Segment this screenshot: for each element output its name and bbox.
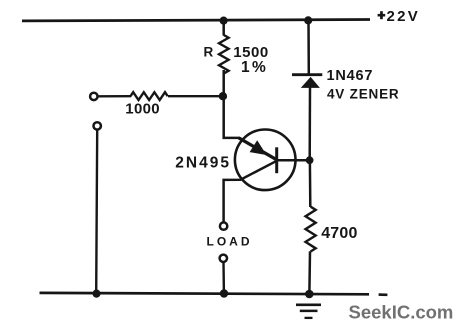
terminal input lower-left: [94, 122, 101, 129]
svg-text:4V ZENER: 4V ZENER: [327, 87, 399, 102]
node bottom rail x left branch: [92, 290, 100, 298]
node base x zener x 4700 junction: [306, 156, 314, 164]
ground: [296, 305, 321, 318]
svg-text:22V: 22V: [387, 8, 421, 25]
wire node to 4700: [309, 163, 312, 207]
wire top rail to R: [222, 21, 225, 36]
terminal input upper-left: [90, 93, 97, 100]
resistor R3 4700 zigzag: [306, 207, 316, 252]
wire zener to node: [308, 88, 311, 159]
node top rail x R branch: [220, 17, 228, 25]
wire terminal to R2: [98, 95, 131, 98]
node R x 1000 x emitter junction: [219, 92, 227, 100]
wire 4700 to bottom rail: [308, 251, 311, 292]
resistor R2 1000 zigzag: [131, 92, 168, 100]
wire base to node: [278, 159, 310, 162]
wire R bottom to junction: [222, 70, 225, 96]
node top rail x zener branch: [304, 16, 312, 24]
svg-text:1000: 1000: [125, 101, 160, 118]
transistor Q1 emitter arrow: [250, 140, 267, 155]
transistor Q1 base bar: [275, 147, 278, 173]
wire emitter lead from junction: [224, 96, 240, 138]
svg-text:2N495: 2N495: [175, 155, 231, 172]
resistor R1 zigzag: [219, 35, 229, 74]
svg-text:1%: 1%: [241, 59, 268, 76]
label +22V: [378, 8, 420, 25]
transistor Q1 body circle: [235, 130, 296, 191]
wire top rail to zener: [307, 21, 310, 74]
wire bottom ground rail: [40, 293, 370, 294]
wire collector lead to load: [224, 161, 276, 222]
svg-text:4700: 4700: [321, 225, 357, 242]
terminal load top: [220, 222, 227, 229]
wire 1000 to junction: [168, 95, 221, 97]
transistor Q1 emitter diagonal: [239, 138, 276, 159]
wire left terminal to bottom rail: [96, 130, 97, 292]
node bottom rail x load branch: [220, 289, 228, 297]
svg-text:1N467: 1N467: [327, 68, 374, 84]
svg-text:SeekIC.com: SeekIC.com: [349, 301, 454, 322]
zener diode D1 cathode bar: [292, 73, 322, 76]
node bottom rail x 4700 branch: [305, 290, 314, 299]
zener diode D1 anode triangle: [301, 77, 320, 88]
terminal load bottom: [220, 255, 227, 262]
wire bottom rail dash stub: [379, 293, 388, 296]
wire top +22V rail: [22, 20, 370, 21]
svg-text:R: R: [204, 45, 214, 60]
wire load to bottom rail: [222, 263, 225, 292]
svg-text:LOAD: LOAD: [207, 235, 253, 249]
